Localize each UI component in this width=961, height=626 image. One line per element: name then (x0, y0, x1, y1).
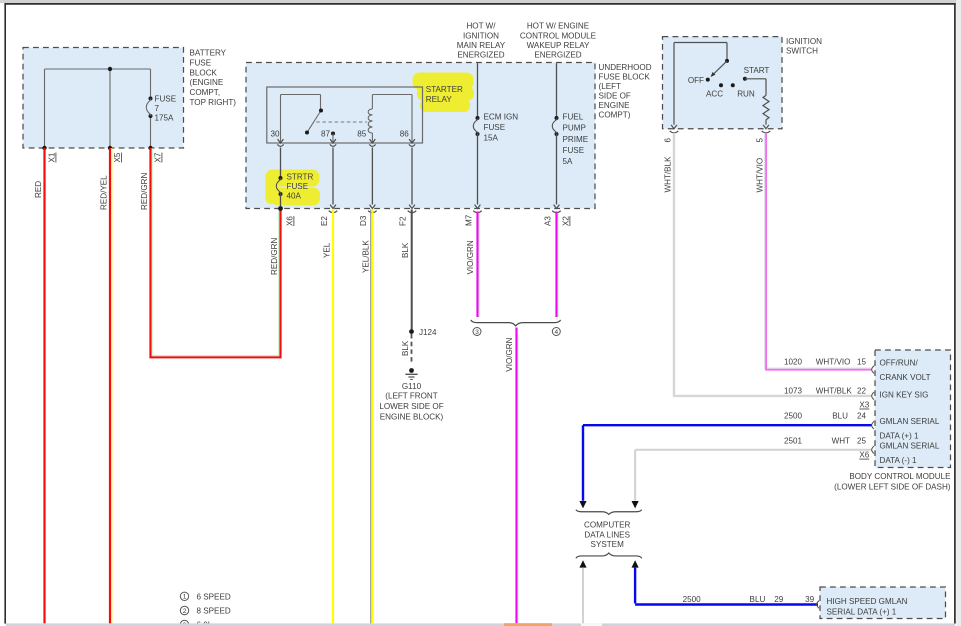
svg-text:IGNITION: IGNITION (463, 31, 499, 40)
svg-text:(LEFT FRONT: (LEFT FRONT (385, 392, 438, 401)
svg-text:COMPT,: COMPT, (190, 88, 221, 97)
svg-text:BLK: BLK (401, 242, 410, 258)
svg-text:E2: E2 (320, 216, 329, 226)
svg-text:A3: A3 (544, 216, 553, 226)
svg-text:HOT W/: HOT W/ (466, 22, 496, 31)
svg-text:LOWER SIDE OF: LOWER SIDE OF (379, 402, 443, 411)
svg-text:X1: X1 (48, 152, 57, 162)
svg-text:1073: 1073 (784, 386, 803, 395)
svg-text:BLK: BLK (401, 340, 410, 356)
svg-text:CONTROL MODULE: CONTROL MODULE (520, 31, 597, 40)
svg-text:15: 15 (857, 357, 867, 366)
svg-text:BODY CONTROL MODULE: BODY CONTROL MODULE (849, 472, 951, 481)
svg-text:WHT: WHT (832, 437, 850, 446)
svg-text:UNDERHOOD: UNDERHOOD (599, 63, 652, 72)
svg-text:WHT/BLK: WHT/BLK (664, 156, 673, 193)
svg-text:29: 29 (774, 595, 784, 604)
svg-text:BATTERY: BATTERY (190, 49, 227, 58)
svg-text:SERIAL DATA (+) 1: SERIAL DATA (+) 1 (827, 608, 897, 617)
svg-text:YEL: YEL (323, 242, 332, 258)
svg-text:FUSE: FUSE (563, 146, 585, 155)
svg-text:WHT/BLK: WHT/BLK (816, 386, 853, 395)
svg-text:BLOCK: BLOCK (190, 68, 218, 77)
svg-text:FUEL: FUEL (563, 113, 584, 122)
svg-text:SIDE OF: SIDE OF (599, 92, 631, 101)
svg-text:7: 7 (155, 104, 160, 113)
svg-text:X6: X6 (859, 451, 869, 460)
svg-text:F2: F2 (399, 216, 408, 226)
svg-text:3: 3 (475, 329, 479, 336)
svg-text:IGN KEY SIG: IGN KEY SIG (880, 391, 929, 400)
svg-text:DATA (+) 1: DATA (+) 1 (880, 432, 920, 441)
svg-text:VIO/GRN: VIO/GRN (466, 240, 475, 274)
svg-text:6 SPEED: 6 SPEED (197, 592, 231, 601)
svg-text:G110: G110 (402, 382, 422, 391)
svg-text:2500: 2500 (784, 412, 803, 421)
svg-text:(ENGINE: (ENGINE (190, 78, 224, 87)
svg-text:39: 39 (805, 595, 815, 604)
svg-text:22: 22 (857, 386, 867, 395)
svg-text:FUSE: FUSE (287, 182, 309, 191)
svg-text:RED/GRN: RED/GRN (140, 173, 149, 210)
svg-text:85: 85 (357, 129, 367, 138)
svg-text:8 SPEED: 8 SPEED (197, 607, 231, 616)
svg-text:30: 30 (270, 129, 280, 138)
svg-text:RELAY: RELAY (426, 95, 453, 104)
svg-text:ENERGIZED: ENERGIZED (457, 51, 504, 60)
svg-text:M7: M7 (465, 214, 474, 226)
svg-text:2: 2 (183, 608, 187, 615)
svg-text:1: 1 (183, 594, 187, 601)
svg-text:RED: RED (34, 181, 43, 198)
svg-text:87: 87 (321, 129, 331, 138)
svg-text:X3: X3 (859, 401, 869, 410)
svg-text:GMLAN SERIAL: GMLAN SERIAL (880, 442, 940, 451)
svg-text:RUN: RUN (737, 89, 755, 98)
svg-text:ENGINE: ENGINE (599, 101, 631, 110)
svg-text:BLU: BLU (832, 412, 848, 421)
svg-text:X6: X6 (286, 216, 295, 226)
svg-text:VIO/GRN: VIO/GRN (505, 337, 514, 371)
svg-text:DATA (-) 1: DATA (-) 1 (880, 456, 918, 465)
svg-text:HOT W/ ENGINE: HOT W/ ENGINE (527, 22, 590, 31)
svg-text:WAKEUP RELAY: WAKEUP RELAY (527, 41, 590, 50)
svg-text:FUSE: FUSE (484, 123, 506, 132)
svg-text:ENGINE BLOCK): ENGINE BLOCK) (380, 413, 444, 422)
svg-text:PRIME: PRIME (563, 135, 589, 144)
svg-text:RED/YEL: RED/YEL (100, 175, 109, 210)
svg-text:MAIN RELAY: MAIN RELAY (457, 41, 506, 50)
svg-text:BLU: BLU (750, 595, 766, 604)
svg-text:(LOWER LEFT SIDE OF DASH): (LOWER LEFT SIDE OF DASH) (834, 482, 951, 491)
svg-text:15A: 15A (484, 134, 499, 143)
svg-text:ENERGIZED: ENERGIZED (534, 51, 581, 60)
svg-text:STARTER: STARTER (426, 85, 463, 94)
svg-text:GMLAN SERIAL: GMLAN SERIAL (880, 417, 940, 426)
svg-text:ECM IGN: ECM IGN (484, 113, 519, 122)
svg-text:WHT/VIO: WHT/VIO (816, 357, 851, 366)
svg-text:25: 25 (857, 437, 867, 446)
svg-text:YEL/BLK: YEL/BLK (362, 240, 371, 273)
svg-text:2500: 2500 (683, 595, 702, 604)
svg-text:40A: 40A (287, 192, 302, 201)
svg-text:START: START (744, 66, 770, 75)
svg-text:24: 24 (857, 412, 867, 421)
svg-text:RED/GRN: RED/GRN (270, 238, 279, 275)
svg-text:COMPUTER: COMPUTER (584, 521, 630, 530)
svg-text:SYSTEM: SYSTEM (591, 540, 625, 549)
svg-text:D3: D3 (359, 215, 368, 226)
svg-text:4: 4 (554, 329, 558, 336)
svg-text:OFF: OFF (688, 76, 704, 85)
svg-text:CRANK VOLT: CRANK VOLT (880, 373, 931, 382)
svg-text:J124: J124 (419, 328, 437, 337)
svg-text:DATA LINES: DATA LINES (584, 530, 630, 539)
svg-text:TOP RIGHT): TOP RIGHT) (190, 98, 237, 107)
svg-text:(LEFT: (LEFT (599, 82, 622, 91)
svg-text:ACC: ACC (706, 89, 723, 98)
svg-text:5: 5 (756, 138, 765, 143)
svg-text:X2: X2 (562, 216, 571, 226)
svg-text:6: 6 (664, 138, 673, 143)
svg-text:STRTR: STRTR (287, 173, 314, 182)
svg-text:5A: 5A (563, 157, 574, 166)
svg-text:1020: 1020 (784, 357, 803, 366)
svg-text:175A: 175A (155, 114, 175, 123)
svg-text:COMPT): COMPT) (599, 111, 631, 120)
svg-text:SWITCH: SWITCH (786, 47, 818, 56)
svg-text:OFF/RUN/: OFF/RUN/ (880, 358, 919, 367)
svg-text:HIGH SPEED GMLAN: HIGH SPEED GMLAN (827, 597, 908, 606)
svg-text:PUMP: PUMP (563, 124, 586, 133)
svg-text:FUSE BLOCK: FUSE BLOCK (599, 73, 651, 82)
svg-text:FUSE: FUSE (190, 58, 212, 67)
svg-text:X7: X7 (154, 152, 163, 162)
svg-text:IGNITION: IGNITION (786, 37, 822, 46)
svg-text:WHT/VIO: WHT/VIO (756, 158, 765, 193)
svg-text:2501: 2501 (784, 437, 803, 446)
svg-text:X5: X5 (113, 152, 122, 162)
svg-text:86: 86 (400, 129, 410, 138)
svg-text:FUSE: FUSE (155, 95, 177, 104)
